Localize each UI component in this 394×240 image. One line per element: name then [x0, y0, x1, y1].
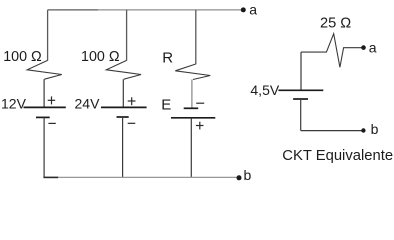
svg-text:100 Ω: 100 Ω — [3, 49, 42, 65]
minus sign battery E — [196, 102, 204, 104]
battery V1 negative plate — [36, 116, 50, 118]
battery V2 24V positive plate — [101, 106, 147, 108]
svg-text:E: E — [161, 97, 171, 114]
label 4,5V — [250, 82, 279, 98]
wire branch 2 resistor to battery plate — [122, 79, 124, 107]
svg-text:24V: 24V — [75, 95, 101, 111]
node b (left circuit) — [237, 167, 252, 183]
resistor 25 ohm (horizontal zigzag) — [301, 34, 364, 68]
node b (equivalent circuit) — [361, 121, 378, 137]
wire bottom bus to node b — [43, 176, 239, 178]
wire branch 3 battery to bottom bus — [190, 118, 192, 178]
label 12V — [1, 95, 27, 111]
wire branch 1 vertical (top bus to R) — [47, 10, 49, 61]
plus sign battery V2 — [128, 97, 136, 105]
svg-text:a: a — [369, 40, 377, 56]
svg-text:b: b — [371, 121, 379, 137]
svg-text:25 Ω: 25 Ω — [320, 16, 351, 32]
svg-text:b: b — [244, 167, 252, 183]
label 100 ohm (branch 2) — [81, 49, 120, 65]
label CKT Equivalente — [282, 148, 393, 164]
label 100 ohm (branch 1) — [3, 49, 42, 65]
battery E negative plate (top, short) — [184, 107, 199, 109]
wire top bus from branch 1 to node a — [48, 9, 244, 11]
battery 4,5V negative plate — [293, 98, 308, 100]
node a (left circuit) — [241, 1, 257, 17]
label 24V — [75, 95, 101, 111]
wire branch 2 vertical (top bus to R) — [126, 10, 128, 61]
minus sign battery V1 — [48, 122, 55, 124]
plus sign battery E — [196, 122, 204, 130]
svg-text:4,5V: 4,5V — [250, 82, 279, 98]
plus sign battery V1 — [48, 96, 56, 104]
svg-text:CKT Equivalente: CKT Equivalente — [282, 148, 393, 164]
node a (equivalent circuit) — [361, 40, 377, 56]
wire bottom to node b (equivalent circuit) — [301, 130, 364, 132]
minus sign battery V2 — [128, 122, 136, 124]
battery V2 negative plate — [117, 116, 129, 118]
svg-text:12V: 12V — [1, 95, 27, 111]
wire battery to bottom corner (equivalent circuit) — [300, 99, 302, 131]
resistor 100 ohm branch 2 — [106, 60, 141, 79]
wire branch 2 battery to bottom bus — [122, 117, 124, 177]
wire resistor to battery (equivalent circuit) — [300, 52, 302, 90]
label E — [161, 97, 171, 114]
svg-text:R: R — [162, 50, 173, 67]
label 25 ohm — [320, 16, 351, 32]
svg-text:a: a — [249, 1, 257, 17]
wire branch 3 resistor to battery plate — [191, 80, 193, 109]
wire branch 1 resistor to battery plate — [43, 79, 45, 107]
svg-text:100 Ω: 100 Ω — [81, 49, 120, 65]
wire branch 3 vertical (top bus to R) — [195, 10, 197, 64]
battery E positive plate (bottom, long) — [171, 117, 215, 119]
label R — [162, 50, 173, 67]
battery 4,5V positive plate — [278, 89, 323, 91]
resistor R branch 3 — [175, 64, 210, 80]
wire branch 1 battery to bottom bus — [43, 117, 45, 177]
resistor R=100 ohm branch 1 — [27, 60, 62, 79]
battery V1 12V positive plate — [24, 106, 66, 108]
